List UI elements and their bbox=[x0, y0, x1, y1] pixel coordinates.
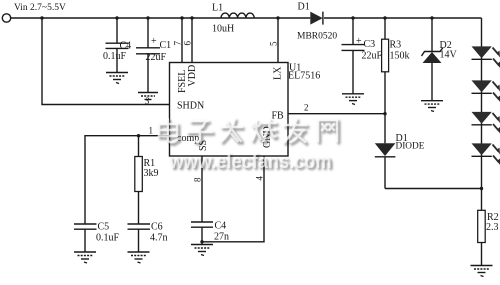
svg-text:C6: C6 bbox=[151, 222, 163, 233]
svg-text:www.elecfans.com: www.elecfans.com bbox=[169, 150, 332, 173]
svg-text:22uF: 22uF bbox=[362, 51, 383, 62]
ground (C5) bbox=[74, 252, 96, 263]
svg-text:5: 5 bbox=[269, 41, 279, 46]
wire pin4 GND bbox=[202, 156, 264, 242]
wire pin7 bbox=[181, 18, 183, 63]
svg-text:7: 7 bbox=[173, 41, 183, 46]
svg-text:150k: 150k bbox=[390, 51, 410, 62]
node FB/R3 bbox=[383, 112, 386, 115]
node F (LX top) bbox=[276, 16, 279, 19]
svg-text:0.1uF: 0.1uF bbox=[103, 51, 127, 62]
ground (C1) bbox=[138, 93, 158, 100]
svg-text:+: + bbox=[151, 36, 157, 47]
svg-text:3k9: 3k9 bbox=[144, 168, 159, 179]
node A (SHDN branch) bbox=[40, 16, 43, 19]
watermark bbox=[159, 119, 339, 175]
wire pin6 bbox=[191, 18, 193, 63]
svg-text:Vin 2.7~5.5V: Vin 2.7~5.5V bbox=[14, 3, 66, 13]
svg-text:3: 3 bbox=[144, 96, 150, 106]
svg-text:6: 6 bbox=[183, 41, 193, 46]
svg-text:DIODE: DIODE bbox=[396, 142, 425, 152]
node comp/R1 bbox=[137, 134, 140, 137]
capacitor C4 27n bbox=[191, 221, 229, 245]
zener D2 bbox=[422, 18, 458, 101]
node C4/pin4 bbox=[200, 240, 203, 243]
svg-text:14V: 14V bbox=[440, 50, 458, 61]
svg-text:22uF: 22uF bbox=[146, 52, 167, 63]
input terminal bbox=[2, 3, 66, 22]
node H (R3 top) bbox=[383, 16, 386, 19]
svg-text:C4: C4 bbox=[215, 221, 227, 232]
svg-text:C1: C1 bbox=[160, 40, 172, 51]
ground (C4) bbox=[106, 73, 128, 84]
svg-text:8: 8 bbox=[193, 177, 203, 182]
wire top rail left bbox=[11, 17, 311, 19]
svg-text:MBR0520: MBR0520 bbox=[297, 32, 337, 42]
ground (C4 27n) bbox=[191, 245, 213, 256]
wire FB bbox=[288, 113, 385, 115]
svg-text:27n: 27n bbox=[214, 232, 229, 243]
LED D3 bbox=[472, 46, 500, 68]
wire pin8 SS bbox=[201, 156, 203, 222]
capacitor C1 bbox=[136, 18, 171, 93]
diode D1 MBR0520 bbox=[297, 2, 337, 42]
capacitor C5 bbox=[74, 222, 120, 253]
resistor R2 bbox=[478, 189, 499, 266]
capacitor C3 bbox=[342, 18, 383, 94]
wire comp bbox=[85, 136, 170, 224]
node LED/R2 bbox=[480, 187, 483, 190]
svg-text:EL7516: EL7516 bbox=[288, 71, 320, 82]
capacitor C6 bbox=[128, 222, 168, 253]
svg-text:VDD: VDD bbox=[187, 65, 198, 87]
svg-text:1: 1 bbox=[149, 126, 154, 136]
node C (C1 top) bbox=[146, 16, 149, 19]
capacitor C4 bbox=[103, 18, 131, 73]
svg-text:C5: C5 bbox=[98, 222, 110, 233]
wire SHDN branch bbox=[42, 18, 170, 105]
svg-text:L1: L1 bbox=[212, 3, 223, 14]
svg-text:4.7n: 4.7n bbox=[150, 233, 168, 244]
wire bottom right bbox=[385, 188, 482, 190]
svg-text:D1: D1 bbox=[298, 2, 310, 13]
node G (C3 top) bbox=[351, 16, 354, 19]
svg-text:C4: C4 bbox=[120, 41, 132, 52]
svg-text:R3: R3 bbox=[390, 40, 402, 51]
ground (R2) bbox=[471, 266, 493, 277]
svg-text:10uH: 10uH bbox=[212, 24, 234, 35]
wire top rail right bbox=[324, 17, 482, 19]
resistor R1 bbox=[135, 136, 159, 224]
LED D6 bbox=[472, 143, 500, 165]
node I (D2 top) bbox=[430, 16, 433, 19]
node D (pin7 top) bbox=[180, 16, 183, 19]
node B (C4 top) bbox=[115, 16, 118, 19]
svg-text:2: 2 bbox=[304, 103, 309, 113]
ground (C6) bbox=[128, 252, 150, 263]
LED D5 bbox=[472, 112, 500, 134]
svg-text:LX: LX bbox=[273, 66, 284, 80]
diode D1 DIODE bbox=[375, 114, 425, 189]
ground (D2) bbox=[421, 101, 443, 112]
svg-text:0.1uF: 0.1uF bbox=[96, 233, 120, 244]
LED chain wire bbox=[481, 18, 483, 189]
node E (pin6 top) bbox=[190, 16, 193, 19]
resistor R3 bbox=[382, 18, 410, 114]
LED D4 bbox=[472, 80, 500, 102]
svg-text:2.3: 2.3 bbox=[486, 222, 499, 233]
wire pin5 LX bbox=[277, 18, 279, 63]
svg-text:FB: FB bbox=[272, 111, 285, 122]
ground (C3) bbox=[342, 94, 364, 105]
svg-text:4: 4 bbox=[255, 176, 265, 181]
svg-text:C3: C3 bbox=[364, 39, 376, 50]
inductor L1 bbox=[212, 3, 254, 35]
svg-text:SHDN: SHDN bbox=[177, 100, 204, 111]
svg-text:+: + bbox=[356, 36, 362, 47]
op-amp U1 EL7516 box bbox=[170, 63, 321, 157]
